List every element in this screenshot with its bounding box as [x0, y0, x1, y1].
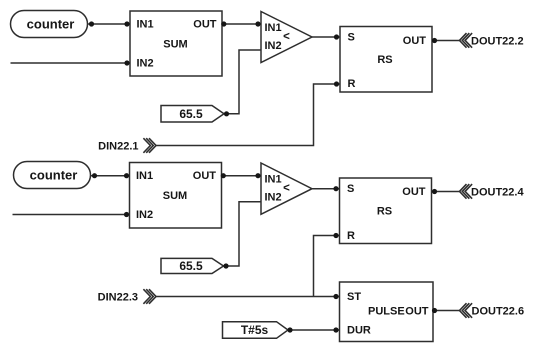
block SUM2	[130, 163, 222, 229]
junction dot PULSE DUR	[333, 327, 338, 332]
svg-text:OUT: OUT	[193, 170, 217, 182]
junction dot comparator2 IN1	[255, 173, 260, 178]
junction dot SUM1 IN2	[124, 60, 129, 65]
wire RS2 OUT to DOUT22.4	[432, 191, 460, 193]
junction dot T#5s tip	[287, 327, 292, 332]
svg-text:DOUT22.6: DOUT22.6	[472, 305, 525, 317]
svg-text:PULSE: PULSE	[368, 306, 405, 318]
svg-text:<: <	[283, 31, 290, 43]
svg-text:SUM: SUM	[163, 190, 187, 202]
svg-text:IN1: IN1	[265, 174, 282, 186]
connector chevrons DOUT22.4	[460, 184, 473, 199]
svg-text:OUT: OUT	[405, 306, 429, 318]
junction dot counter2 out	[92, 173, 97, 178]
svg-text:counter: counter	[27, 16, 75, 31]
junction dot RS2 OUT	[432, 189, 437, 194]
svg-text:IN2: IN2	[137, 58, 154, 70]
svg-text:OUT: OUT	[193, 19, 217, 31]
junction dot counter1 out	[89, 21, 94, 26]
svg-text:IN2: IN2	[136, 209, 153, 221]
wire SUM2 OUT to comparator2 IN1	[222, 175, 262, 177]
junction dot RS1 S	[334, 34, 339, 39]
svg-text:RS: RS	[377, 205, 392, 217]
wire 65.5 to comparator1 IN2	[224, 50, 261, 114]
svg-text:R: R	[347, 230, 355, 242]
block SUM1	[130, 11, 222, 76]
svg-text:65.5: 65.5	[179, 259, 203, 273]
svg-text:OUT: OUT	[403, 35, 427, 47]
junction dot SUM2 IN1	[124, 173, 129, 178]
block RS1	[340, 27, 432, 93]
input box counter (bottom)	[14, 162, 91, 189]
svg-text:IN1: IN1	[136, 170, 153, 182]
svg-text:<: <	[283, 182, 290, 194]
svg-text:65.5: 65.5	[179, 107, 203, 121]
block PULSE	[340, 282, 434, 342]
svg-text:DOUT22.4: DOUT22.4	[471, 186, 524, 198]
svg-text:R: R	[348, 78, 356, 90]
svg-text:T#5s: T#5s	[241, 323, 269, 337]
wire T#5s to PULSE DUR	[288, 329, 340, 331]
wire PULSE OUT to DOUT22.6	[433, 310, 460, 312]
connector chevrons DIN22.1	[143, 138, 156, 153]
svg-text:RS: RS	[377, 54, 392, 66]
flag constant 65.5 (bottom)	[161, 258, 224, 273]
junction dot RS1 R	[334, 81, 339, 86]
junction dot 65.5 top tip	[224, 111, 229, 116]
svg-text:S: S	[348, 32, 355, 44]
flag constant T#5s	[223, 322, 289, 339]
junction dot PULSE ST	[333, 294, 338, 299]
connector chevrons DIN22.3	[143, 289, 156, 304]
comparator LT1	[261, 12, 312, 63]
wire IN2 input (bottom)	[13, 214, 130, 216]
wire comparator1 out to RS1 S	[312, 36, 340, 38]
svg-text:ST: ST	[347, 291, 361, 303]
junction dot SUM2 IN2	[124, 212, 129, 217]
junction dot RS2 R	[333, 233, 338, 238]
wire counter2 to SUM2 IN1	[91, 175, 130, 177]
svg-text:OUT: OUT	[402, 186, 426, 198]
svg-text:S: S	[347, 183, 354, 195]
junction dot comparator1 IN1	[255, 21, 260, 26]
wire counter1 to SUM1 IN1	[88, 23, 131, 25]
svg-text:IN2: IN2	[265, 192, 282, 204]
wire SUM1 OUT to comparator1 IN1	[222, 23, 261, 25]
svg-text:IN1: IN1	[265, 22, 282, 34]
wire IN2 input (top)	[11, 62, 131, 64]
connector chevrons DOUT22.6	[460, 303, 473, 318]
svg-text:SUM: SUM	[163, 38, 187, 50]
junction dot PULSE OUT	[432, 308, 437, 313]
wire branch DIN22.3 to RS2 R	[314, 236, 340, 297]
svg-text:counter: counter	[30, 168, 78, 183]
wire 65.5 to comparator2 IN2	[224, 202, 262, 266]
flag constant 65.5 (top)	[161, 106, 224, 123]
svg-text:IN2: IN2	[265, 40, 282, 52]
junction dot SUM2 OUT	[221, 173, 226, 178]
wire DIN22.1 to RS1 R	[156, 84, 340, 146]
junction dot SUM1 OUT	[221, 21, 226, 26]
comparator LT2	[261, 163, 312, 214]
wire comparator2 out to RS2 S	[312, 188, 340, 190]
svg-text:IN1: IN1	[137, 19, 154, 31]
connector chevrons DOUT22.2	[460, 33, 473, 48]
wire DIN22.3 to PULSE ST	[156, 296, 340, 298]
svg-text:DIN22.1: DIN22.1	[98, 140, 138, 152]
svg-text:DOUT22.2: DOUT22.2	[471, 35, 524, 47]
svg-text:DUR: DUR	[347, 325, 371, 337]
wire RS1 OUT to DOUT22.2	[432, 40, 460, 42]
junction dot SUM1 IN1	[124, 21, 129, 26]
junction dot RS2 S	[333, 186, 338, 191]
junction dot 65.5 bottom tip	[223, 263, 228, 268]
block RS2	[340, 178, 432, 244]
junction dot RS1 OUT	[432, 38, 437, 43]
input box counter (top)	[11, 11, 88, 38]
svg-text:DIN22.3: DIN22.3	[98, 291, 138, 303]
